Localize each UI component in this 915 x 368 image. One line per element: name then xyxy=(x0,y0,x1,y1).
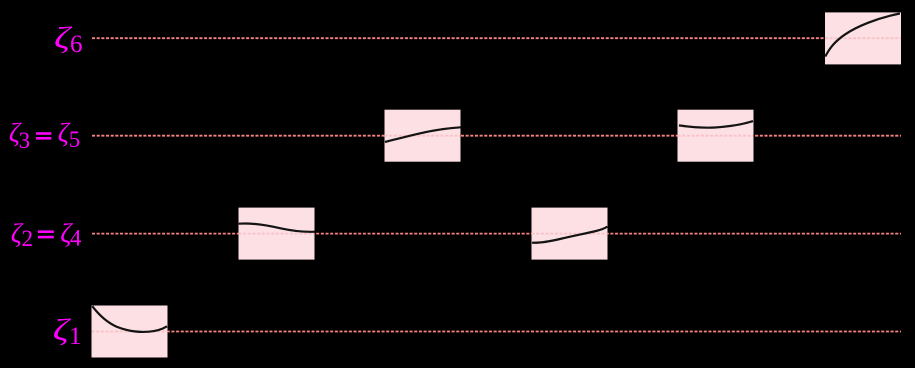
band box B1 (bottom left) xyxy=(92,306,168,358)
dashed guide line zeta1 xyxy=(92,331,901,333)
curve in B3 xyxy=(679,121,753,128)
dashed guide line zeta3=zeta5 xyxy=(92,135,901,137)
faint dashes through B6 xyxy=(825,37,901,39)
svg-text:6: 6 xyxy=(70,31,83,58)
faint dashes through B4 xyxy=(532,233,608,235)
band box B4 (line3 right) xyxy=(532,208,608,260)
dashed guide line zeta2=zeta4 xyxy=(92,233,901,235)
svg-text:3: 3 xyxy=(19,128,31,153)
dashed guide line zeta6 xyxy=(92,37,901,39)
faint dashes through B2 xyxy=(239,233,315,235)
svg-text:2: 2 xyxy=(22,226,33,251)
label zeta2 = zeta4 xyxy=(11,217,82,251)
svg-text:5: 5 xyxy=(69,127,81,152)
curve in B2 xyxy=(239,223,315,231)
curve in B6 xyxy=(825,14,900,57)
band box B5 (line2 left) xyxy=(385,110,461,162)
curve in B4 xyxy=(532,227,607,243)
faint dashes through B1 xyxy=(92,331,168,333)
curve in B1 xyxy=(92,306,167,332)
faint dashes through B3 xyxy=(678,135,754,137)
band box B6 (top right) xyxy=(825,12,901,64)
svg-text:1: 1 xyxy=(69,323,82,350)
label zeta3 = zeta5 xyxy=(9,117,80,153)
curve in B5 xyxy=(385,127,461,142)
band box B2 (line3 left) xyxy=(239,208,315,260)
faint dashes through B5 xyxy=(385,135,461,137)
label zeta6 xyxy=(54,20,83,58)
label zeta1 xyxy=(53,312,82,350)
svg-text:4: 4 xyxy=(70,225,82,250)
band box B3 (line2 right) xyxy=(678,110,754,162)
